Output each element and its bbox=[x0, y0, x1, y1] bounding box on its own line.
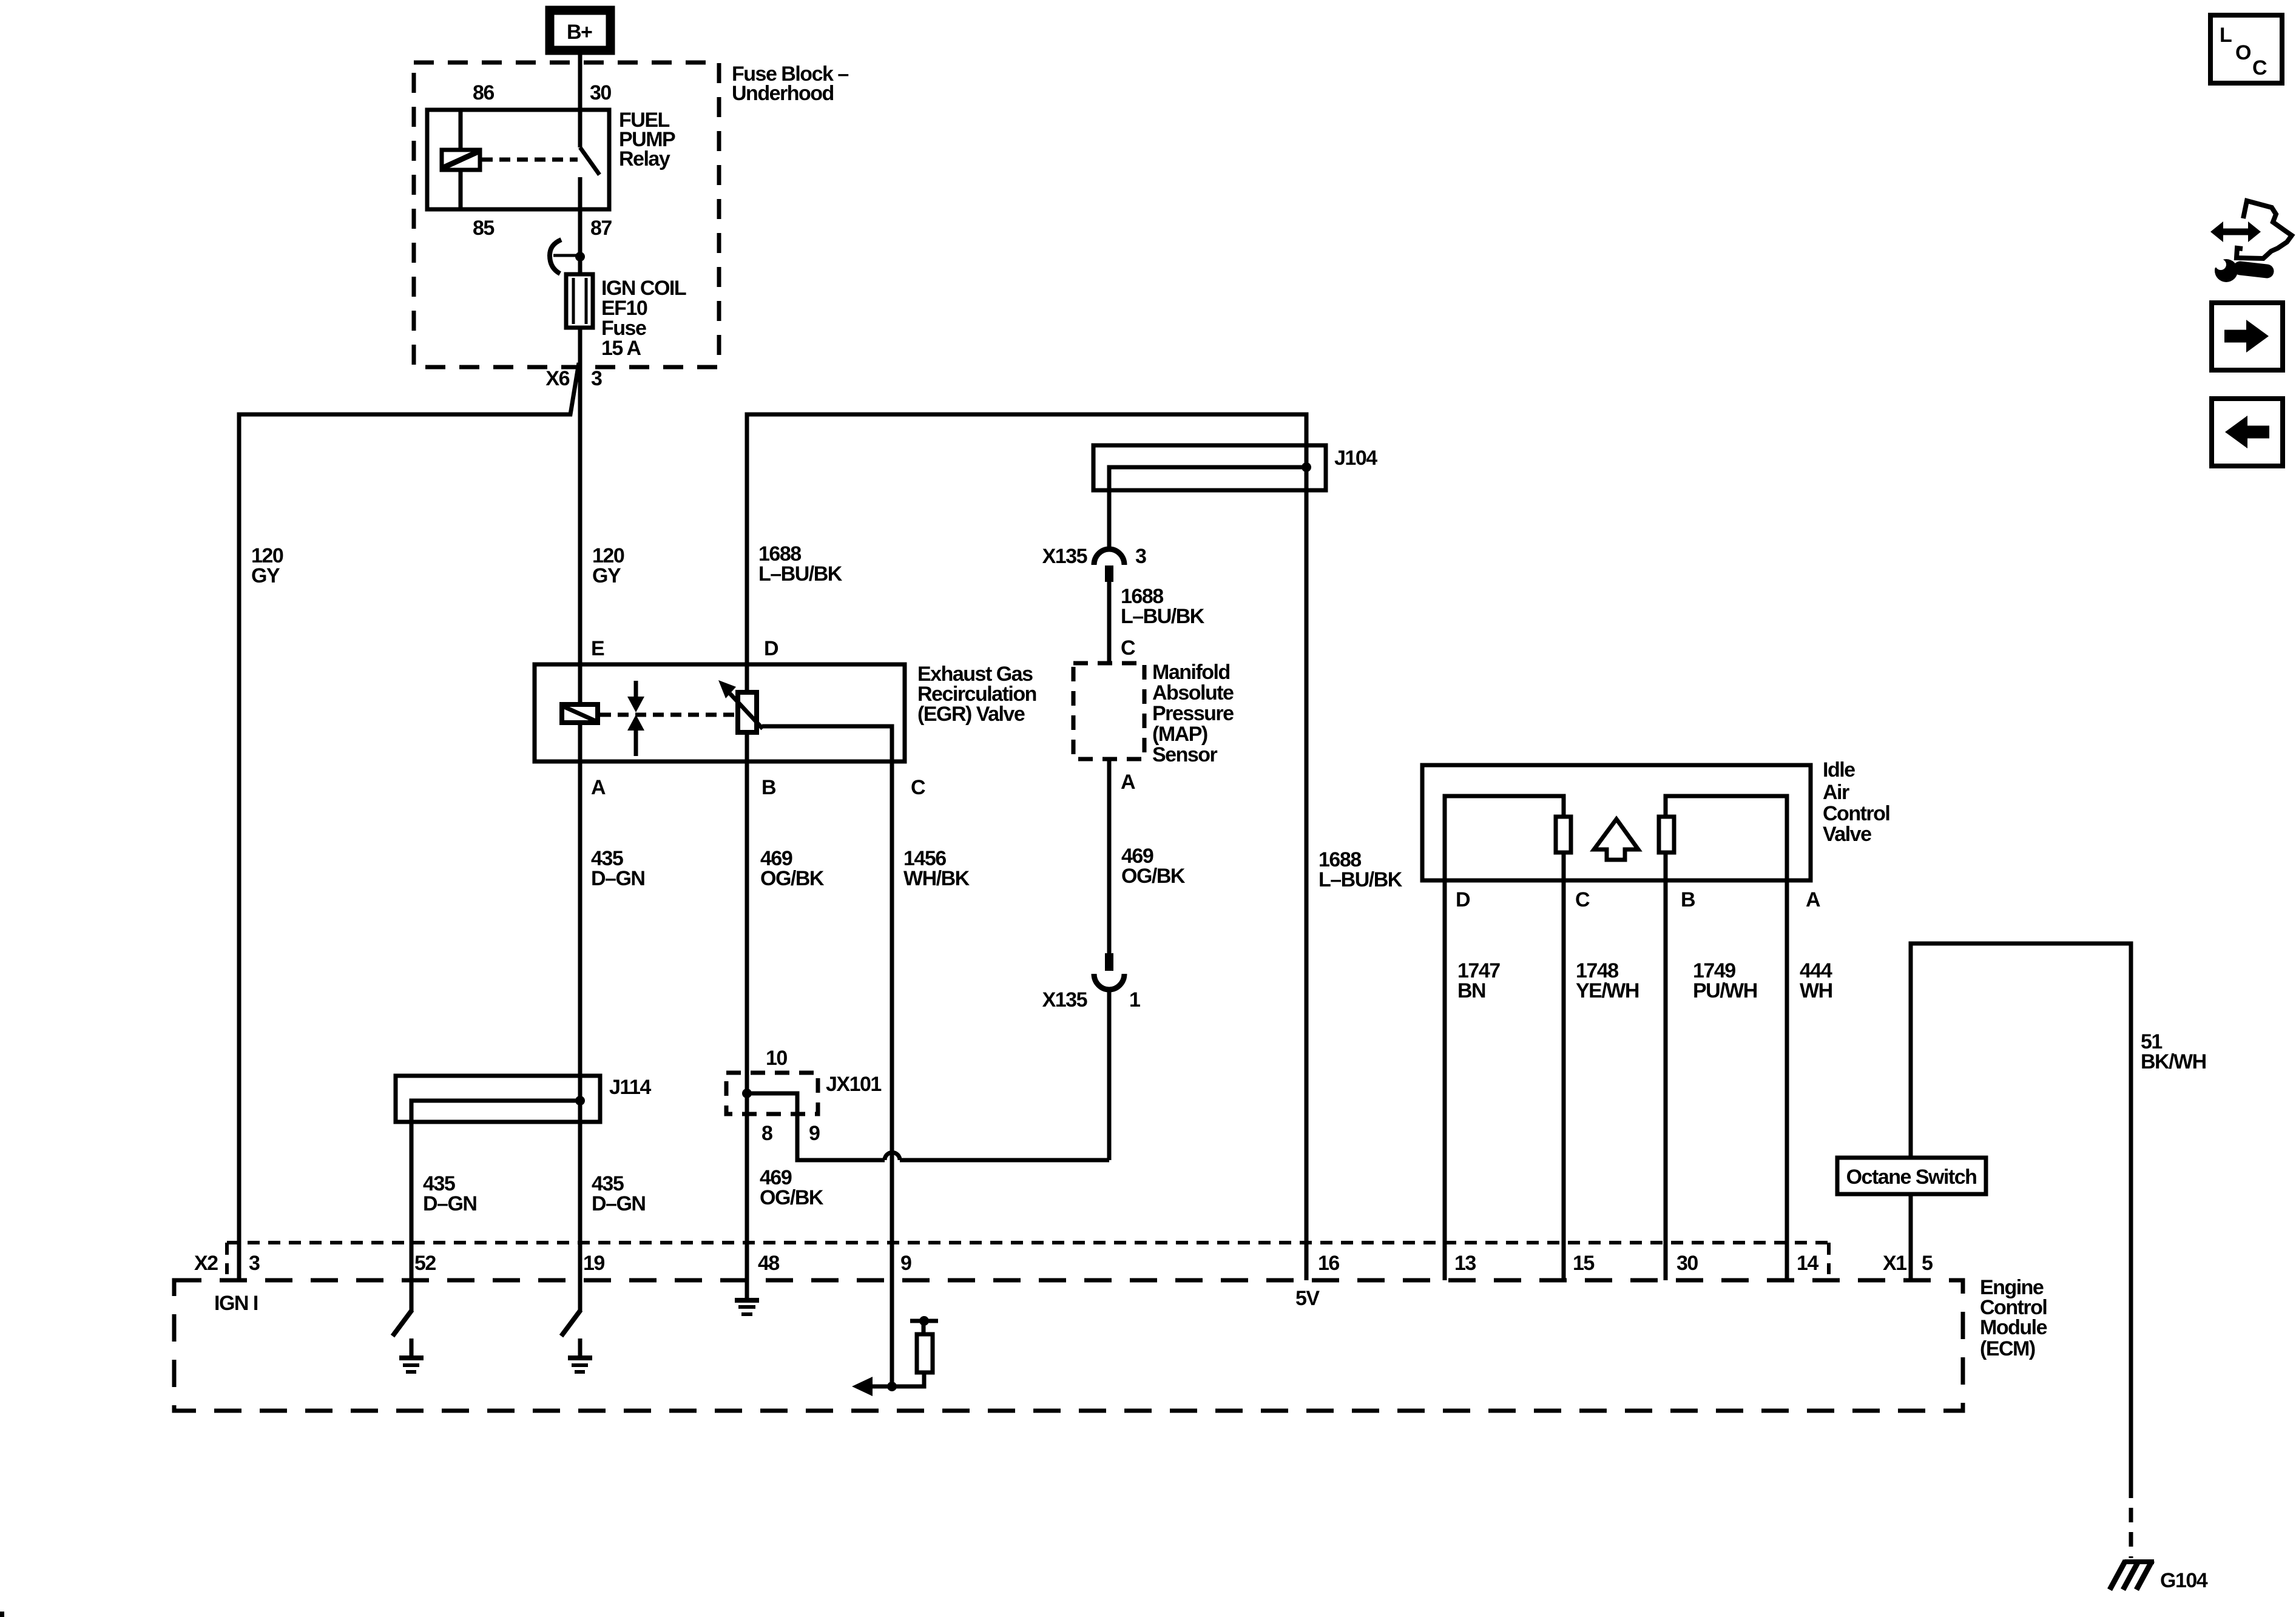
svg-text:5: 5 bbox=[1922, 1252, 1933, 1275]
svg-text:Absolute: Absolute bbox=[1152, 681, 1234, 704]
svg-text:9: 9 bbox=[900, 1252, 911, 1275]
svg-text:WH/BK: WH/BK bbox=[903, 867, 970, 890]
svg-text:Pressure: Pressure bbox=[1152, 702, 1234, 725]
svg-text:G104: G104 bbox=[2160, 1569, 2208, 1592]
svg-text:C: C bbox=[2252, 56, 2267, 79]
svg-text:Underhood: Underhood bbox=[732, 82, 834, 105]
svg-text:13: 13 bbox=[1454, 1252, 1476, 1275]
svg-text:19: 19 bbox=[583, 1252, 604, 1275]
svg-text:GY: GY bbox=[251, 564, 280, 587]
svg-text:B: B bbox=[1681, 888, 1695, 911]
svg-text:10: 10 bbox=[766, 1047, 787, 1070]
svg-text:O: O bbox=[2235, 41, 2251, 64]
svg-text:L–BU/BK: L–BU/BK bbox=[1319, 868, 1403, 891]
svg-text:OG/BK: OG/BK bbox=[1121, 865, 1186, 888]
svg-text:48: 48 bbox=[758, 1252, 779, 1275]
svg-text:BK/WH: BK/WH bbox=[2141, 1050, 2206, 1073]
svg-text:PU/WH: PU/WH bbox=[1693, 979, 1757, 1002]
svg-text:L: L bbox=[2220, 24, 2232, 47]
svg-text:Air: Air bbox=[1823, 781, 1849, 804]
svg-text:J114: J114 bbox=[609, 1076, 651, 1099]
svg-text:(MAP): (MAP) bbox=[1152, 723, 1207, 746]
svg-text:Valve: Valve bbox=[1823, 823, 1871, 846]
svg-text:X1: X1 bbox=[1883, 1252, 1906, 1275]
svg-text:X2: X2 bbox=[194, 1252, 218, 1275]
svg-text:30: 30 bbox=[1676, 1252, 1698, 1275]
svg-text:D: D bbox=[764, 637, 778, 660]
svg-text:E: E bbox=[591, 637, 604, 660]
svg-text:14: 14 bbox=[1797, 1252, 1818, 1275]
svg-text:87: 87 bbox=[590, 217, 612, 240]
svg-text:(ECM): (ECM) bbox=[1980, 1337, 2035, 1360]
svg-text:GY: GY bbox=[592, 564, 621, 587]
svg-text:Octane Switch: Octane Switch bbox=[1846, 1166, 1977, 1189]
svg-text:1: 1 bbox=[1129, 988, 1140, 1011]
svg-text:(EGR) Valve: (EGR) Valve bbox=[917, 703, 1025, 726]
svg-text:BN: BN bbox=[1457, 979, 1485, 1002]
svg-text:3: 3 bbox=[1135, 545, 1146, 568]
svg-text:8: 8 bbox=[761, 1122, 772, 1145]
svg-text:J104: J104 bbox=[1334, 447, 1377, 470]
svg-text:5V: 5V bbox=[1295, 1287, 1320, 1310]
svg-text:30: 30 bbox=[590, 81, 611, 104]
svg-text:IGN I: IGN I bbox=[214, 1292, 258, 1315]
svg-text:A: A bbox=[1121, 771, 1135, 794]
svg-text:X135: X135 bbox=[1042, 545, 1087, 568]
svg-text:D–GN: D–GN bbox=[423, 1192, 476, 1215]
svg-text:B+: B+ bbox=[567, 21, 592, 44]
svg-text:C: C bbox=[1121, 636, 1135, 660]
svg-text:16: 16 bbox=[1318, 1252, 1339, 1275]
svg-text:3: 3 bbox=[591, 367, 602, 390]
svg-text:C: C bbox=[911, 776, 925, 799]
svg-text:Control: Control bbox=[1823, 802, 1889, 825]
svg-text:Relay: Relay bbox=[619, 147, 670, 170]
svg-text:YE/WH: YE/WH bbox=[1576, 979, 1639, 1002]
svg-text:Module: Module bbox=[1980, 1316, 2047, 1339]
svg-text:A: A bbox=[591, 776, 606, 799]
svg-text:OG/BK: OG/BK bbox=[760, 1186, 824, 1209]
svg-text:85: 85 bbox=[473, 217, 494, 240]
svg-text:A: A bbox=[1806, 888, 1820, 911]
svg-text:Manifold: Manifold bbox=[1152, 661, 1230, 684]
svg-text:X135: X135 bbox=[1042, 988, 1087, 1011]
svg-text:L–BU/BK: L–BU/BK bbox=[1121, 605, 1205, 628]
svg-text:Sensor: Sensor bbox=[1152, 743, 1218, 766]
svg-text:WH: WH bbox=[1800, 979, 1832, 1002]
svg-text:D: D bbox=[1456, 888, 1470, 911]
svg-text:52: 52 bbox=[414, 1252, 436, 1275]
svg-text:L–BU/BK: L–BU/BK bbox=[758, 562, 843, 586]
svg-text:D–GN: D–GN bbox=[592, 1192, 645, 1215]
svg-text:9: 9 bbox=[809, 1122, 820, 1145]
svg-text:C: C bbox=[1575, 888, 1590, 911]
svg-text:D–GN: D–GN bbox=[591, 867, 644, 890]
svg-text:15 A: 15 A bbox=[601, 337, 641, 360]
svg-text:OG/BK: OG/BK bbox=[760, 867, 825, 890]
svg-text:3: 3 bbox=[249, 1252, 260, 1275]
svg-text:B: B bbox=[761, 776, 776, 799]
svg-text:X6: X6 bbox=[545, 367, 569, 390]
svg-text:86: 86 bbox=[473, 81, 494, 104]
svg-text:JX101: JX101 bbox=[826, 1073, 881, 1096]
svg-text:15: 15 bbox=[1573, 1252, 1594, 1275]
svg-text:Idle: Idle bbox=[1823, 758, 1855, 781]
